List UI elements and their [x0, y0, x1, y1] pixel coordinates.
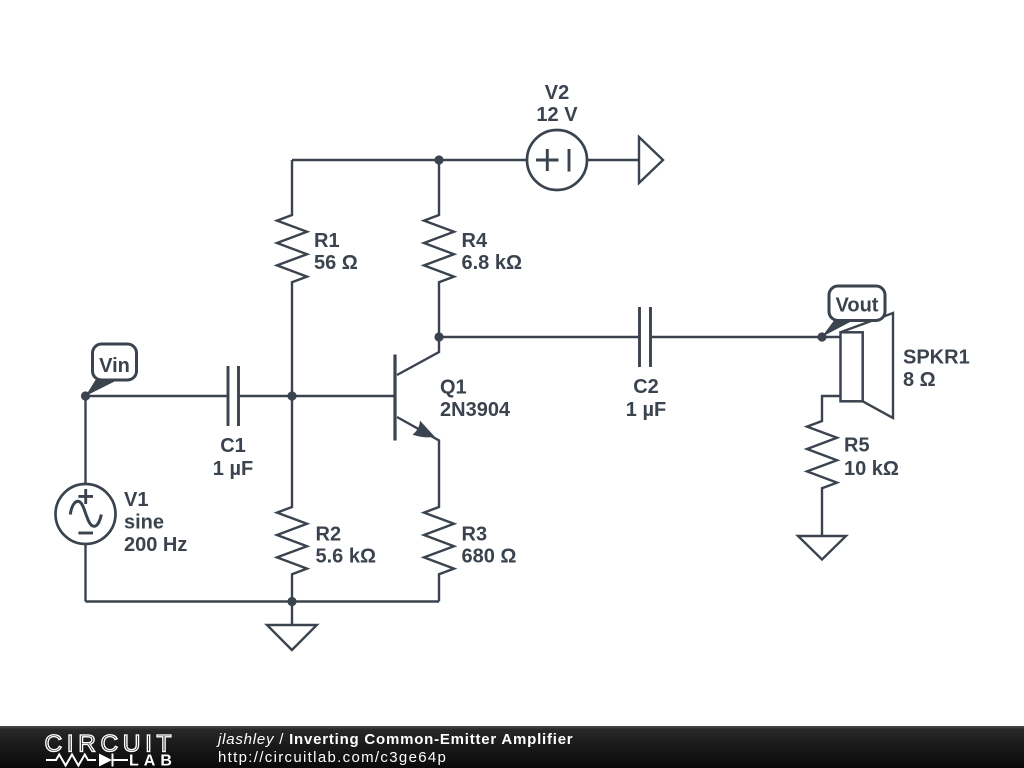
svg-text:SPKR1: SPKR1 [903, 347, 970, 369]
svg-text:Q1: Q1 [440, 377, 467, 399]
svg-text:6.8 kΩ: 6.8 kΩ [462, 252, 523, 274]
svg-text:http://circuitlab.com/c3ge64p: http://circuitlab.com/c3ge64p [218, 749, 447, 766]
svg-text:5.6 kΩ: 5.6 kΩ [316, 546, 377, 568]
svg-text:2N3904: 2N3904 [440, 399, 511, 421]
svg-text:12 V: 12 V [536, 104, 578, 126]
svg-text:200 Hz: 200 Hz [124, 534, 187, 556]
svg-text:1 µF: 1 µF [213, 458, 253, 480]
svg-text:sine: sine [124, 512, 164, 534]
svg-text:10 kΩ: 10 kΩ [844, 458, 899, 480]
svg-text:1 µF: 1 µF [626, 399, 666, 421]
svg-text:R5: R5 [844, 435, 870, 457]
svg-text:R3: R3 [462, 524, 488, 546]
svg-text:R2: R2 [316, 524, 342, 546]
svg-text:V1: V1 [124, 489, 148, 511]
svg-text:R1: R1 [314, 230, 340, 252]
svg-text:C1: C1 [220, 435, 246, 457]
svg-text:8 Ω: 8 Ω [903, 369, 936, 391]
svg-text:C2: C2 [633, 376, 659, 398]
svg-text:R4: R4 [462, 230, 488, 252]
svg-text:V2: V2 [545, 82, 569, 104]
svg-text:Vin: Vin [99, 355, 130, 377]
svg-text:jlashley / Inverting Common-Em: jlashley / Inverting Common-Emitter Ampl… [216, 731, 573, 748]
svg-text:56 Ω: 56 Ω [314, 252, 358, 274]
svg-text:LAB: LAB [129, 753, 177, 768]
svg-text:680 Ω: 680 Ω [462, 546, 517, 568]
svg-text:Vout: Vout [836, 295, 879, 317]
